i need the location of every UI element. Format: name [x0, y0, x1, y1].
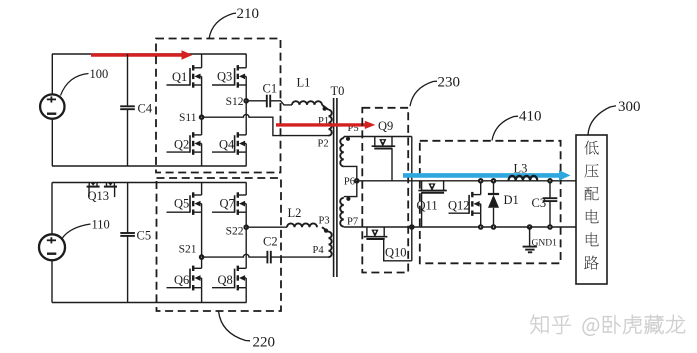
label P4 — [313, 245, 325, 256]
transistor Q7 — [212, 192, 246, 215]
diode D1 — [488, 179, 499, 229]
label L1 — [297, 76, 311, 90]
wire right leg node S22 — [245, 212, 247, 268]
svg-text:Q6: Q6 — [174, 273, 189, 287]
svg-text:C4: C4 — [138, 102, 153, 116]
label 100 with leader — [61, 67, 109, 96]
wire P5 terminal — [344, 136, 412, 138]
transistor Q9 — [372, 137, 396, 149]
svg-text:T0: T0 — [331, 84, 345, 98]
capacitor C4 — [120, 54, 135, 166]
svg-text:Q2: Q2 — [174, 137, 189, 151]
node S11 — [200, 116, 203, 119]
svg-text:Q7: Q7 — [220, 197, 235, 211]
svg-text:300: 300 — [618, 99, 641, 115]
label Q13 — [88, 189, 110, 203]
svg-text:C2: C2 — [263, 235, 278, 249]
transistor Q3 — [212, 65, 246, 88]
polarity dot P3 — [324, 229, 328, 233]
label C4 — [138, 102, 153, 116]
voltage source V2 value 110 — [39, 234, 65, 260]
label T0 — [331, 84, 345, 98]
ground GND1 — [523, 225, 537, 252]
svg-text:Q3: Q3 — [217, 70, 232, 84]
svg-text:P2: P2 — [318, 139, 329, 150]
transistor pair Q13 — [87, 183, 117, 198]
svg-text:110: 110 — [92, 218, 110, 232]
label 300 with leader — [588, 99, 641, 135]
svg-text:P4: P4 — [313, 245, 325, 256]
wire S21 to C2 with hop — [202, 254, 268, 257]
wire bottom rail DC1- — [52, 165, 247, 167]
wire C1 to L1 — [270, 101, 292, 105]
svg-text:P3: P3 — [319, 216, 330, 227]
svg-text:L2: L2 — [288, 206, 302, 220]
polarity dot P1 — [323, 107, 327, 111]
svg-text:L1: L1 — [297, 76, 311, 90]
dashed box 230 rectifier — [362, 108, 408, 273]
label Q12 — [448, 199, 470, 213]
winding secondary 2 P6-P7 — [340, 198, 344, 227]
wire top rail DC1+ — [52, 53, 247, 55]
label 410 with leader — [492, 109, 542, 141]
wire Q7 drain to rail — [245, 183, 247, 196]
svg-text:Q1: Q1 — [172, 70, 187, 84]
transistor Q8 — [212, 266, 246, 291]
wire P6 to winding2 top — [344, 181, 357, 197]
svg-text:210: 210 — [237, 6, 260, 22]
svg-text:D1: D1 — [504, 193, 519, 207]
label Q1 — [172, 70, 187, 84]
label P2 — [318, 139, 329, 150]
svg-text:Q5: Q5 — [174, 197, 189, 211]
svg-text:P7: P7 — [347, 217, 358, 228]
wire Q11 source down — [421, 193, 423, 227]
label L3 — [514, 162, 528, 176]
svg-text:C3: C3 — [532, 196, 547, 210]
label S12 — [226, 96, 244, 108]
node P6 center tap — [355, 179, 358, 182]
label Q9 — [378, 119, 393, 133]
text low-voltage distribution circuit — [584, 141, 598, 270]
transistor Q12 — [449, 192, 481, 216]
polarity dot winding2 — [346, 197, 350, 201]
wire Q9 source to output rail — [391, 149, 393, 181]
label Q2 — [174, 137, 189, 151]
node S12 — [245, 99, 248, 102]
svg-text:Q12: Q12 — [448, 199, 470, 213]
capacitor C1 — [267, 95, 270, 108]
transistor Q5 — [167, 192, 202, 215]
svg-text:C1: C1 — [263, 82, 278, 96]
wire Q4 source to rail — [245, 152, 247, 166]
wire V1 bottom — [51, 119, 53, 166]
wire V2 bottom — [51, 260, 53, 302]
transistor Q1 — [167, 65, 202, 88]
label Q4 — [219, 137, 235, 151]
wire S11 to P2 with hop — [202, 114, 329, 135]
label Q7 — [220, 197, 235, 211]
capacitor C2 — [267, 251, 270, 264]
svg-text:230: 230 — [438, 75, 461, 91]
red arrow secondary current — [276, 121, 375, 129]
dashed box 210 primary bridge 1 — [156, 39, 281, 173]
wire Q1 drain to rail — [201, 54, 203, 68]
label Q11 — [417, 199, 438, 213]
label 220 with leader — [219, 311, 276, 351]
transistor Q4 — [212, 132, 246, 155]
inductor L3 — [509, 176, 538, 181]
wire left leg node S11 — [201, 85, 203, 135]
label Q6 — [174, 273, 189, 287]
wire V2 top — [51, 183, 53, 235]
red arrow input current — [91, 50, 193, 60]
capacitor C3 — [543, 179, 558, 229]
label Q8 — [218, 273, 233, 287]
voltage source V1 value 100 — [40, 94, 64, 118]
svg-text:C5: C5 — [137, 229, 152, 243]
wire V1 top — [51, 54, 53, 95]
svg-text:100: 100 — [90, 67, 109, 81]
svg-text:Q11: Q11 — [417, 199, 438, 213]
wire Q12 source to rail — [479, 213, 482, 229]
node S22 — [245, 226, 248, 229]
label S21 — [179, 244, 197, 256]
transistor Q6 — [167, 266, 202, 291]
wire output rail OUT+ — [357, 180, 576, 182]
label C1 — [263, 82, 278, 96]
label S11 — [179, 112, 197, 124]
svg-text:410: 410 — [519, 109, 542, 125]
svg-text:L3: L3 — [514, 162, 528, 176]
wire right leg node S12 — [245, 85, 247, 135]
wire Q12 drain to rail — [479, 179, 482, 195]
svg-text:S12: S12 — [226, 96, 244, 108]
wire Q10 source path — [384, 239, 412, 261]
svg-text:Q9: Q9 — [378, 119, 393, 133]
node S21 — [200, 255, 203, 258]
wire Q5 drain to rail — [201, 183, 203, 196]
node rail junction — [410, 225, 413, 228]
label 110 with leader — [62, 218, 110, 239]
winding primary B P3-P4 — [322, 227, 332, 257]
wire C2 to P4 — [271, 256, 329, 258]
wire S22 to L2 — [246, 226, 287, 228]
wire S12 to C1 — [246, 100, 267, 102]
wire Q8 source to rail — [245, 288, 247, 303]
wire top rail DC2+ — [52, 182, 247, 184]
svg-text:Q13: Q13 — [88, 189, 110, 203]
label Q3 — [217, 70, 232, 84]
watermark zhihu — [530, 315, 685, 336]
wire return rail OUT- — [344, 226, 576, 228]
svg-text:P6: P6 — [344, 177, 355, 188]
svg-text:S11: S11 — [179, 112, 197, 124]
svg-text:S22: S22 — [226, 226, 244, 238]
winding secondary 1 P5-P6 — [340, 137, 344, 167]
label 230 with leader — [410, 75, 460, 107]
svg-text:220: 220 — [253, 335, 276, 351]
label P3 — [319, 216, 330, 227]
inductor L2 — [287, 223, 317, 227]
polarity dot P5 — [346, 137, 350, 141]
transistor Q2 — [167, 132, 202, 155]
transistor Q10 — [364, 227, 388, 239]
label GND1 — [532, 238, 558, 248]
blue arrow output current — [403, 170, 571, 181]
svg-text:GND1: GND1 — [532, 238, 558, 248]
wire winding1 bottom to P6 — [344, 166, 357, 180]
label C2 — [263, 235, 278, 249]
wire Q3 drain to rail — [245, 54, 247, 68]
wire left leg node S21 — [201, 212, 203, 268]
label C3 — [532, 196, 547, 210]
svg-text:Q8: Q8 — [218, 273, 233, 287]
winding primary A P1-P2 — [322, 105, 332, 136]
block 300 low voltage distribution — [576, 135, 607, 284]
transistor Q11 — [418, 181, 446, 193]
label Q10 — [385, 246, 407, 260]
svg-text:Q10: Q10 — [385, 246, 407, 260]
inductor L1 — [292, 101, 322, 105]
wire bottom rail DC2- — [52, 302, 247, 304]
wire Q6 source to rail — [201, 288, 203, 303]
svg-text:S21: S21 — [179, 244, 197, 256]
wire Q2 source to rail — [201, 152, 203, 166]
svg-text:Q4: Q4 — [219, 137, 235, 151]
label P7 — [347, 217, 358, 228]
label P5 — [348, 123, 359, 134]
wire P5 corner vertical — [411, 137, 413, 261]
label P1 — [318, 116, 329, 127]
label P6 — [344, 177, 355, 188]
dashed box 410 filter — [420, 141, 561, 263]
capacitor C5 — [120, 183, 135, 303]
dashed box 220 primary bridge 2 — [157, 178, 282, 311]
label C5 — [137, 229, 152, 243]
label S22 — [226, 226, 244, 238]
label L2 — [288, 206, 302, 220]
label 210 with leader — [209, 6, 259, 39]
transformer T0 core — [334, 98, 337, 277]
label Q5 — [174, 197, 189, 211]
label D1 — [504, 193, 519, 207]
